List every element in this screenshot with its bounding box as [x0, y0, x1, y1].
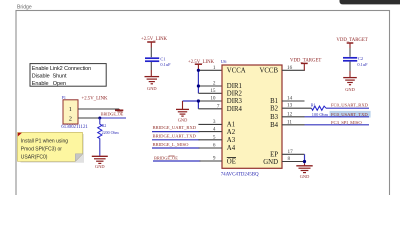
net BRIDGE_OE at OE pin	[153, 156, 222, 161]
pin numbers right	[287, 65, 293, 162]
junction node at R2 top	[98, 117, 101, 120]
svg-text:BRIDGE_OE: BRIDGE_OE	[154, 156, 178, 161]
wire pin1 VCCA	[198, 69, 222, 71]
Enable Link2 text frame	[30, 64, 106, 88]
wire DIR3-DIR4 vertical	[197, 101, 199, 109]
highlight selection on FC0_USART_TXD	[330, 111, 371, 118]
junction node DIR1	[197, 84, 200, 87]
svg-text:C2: C2	[358, 56, 363, 61]
wire +2.5V rail vertical	[197, 70, 199, 93]
wire B2 pin13	[282, 107, 312, 109]
svg-text:2: 2	[213, 81, 216, 87]
svg-text:VCCA: VCCA	[227, 67, 246, 74]
ground at U6 GND	[296, 164, 312, 179]
wire P1 pin1	[78, 108, 119, 110]
svg-text:Pmod SPI(FC3) or: Pmod SPI(FC3) or	[21, 146, 62, 152]
svg-text:A2: A2	[227, 129, 236, 136]
svg-text:1: 1	[213, 65, 216, 71]
svg-text:15: 15	[210, 88, 216, 94]
capacitor C1 0.1uF	[145, 48, 171, 71]
wire DIR2	[198, 92, 222, 94]
svg-text:FC0_USART_RXD: FC0_USART_RXD	[331, 102, 369, 107]
svg-text:USAR(FC0): USAR(FC0)	[21, 154, 48, 160]
svg-text:R1: R1	[311, 102, 316, 107]
IC U6 74AVC4T245	[221, 59, 282, 177]
wire FC3_SPI_MISO	[305, 124, 370, 126]
wire EP-GND vertical	[304, 154, 306, 163]
svg-text:BRIDGE_UART_RXD: BRIDGE_UART_RXD	[153, 125, 197, 130]
svg-text:0.1uF: 0.1uF	[357, 62, 368, 67]
svg-text:1: 1	[69, 106, 72, 113]
wire net stub BRIDGE_OE	[100, 117, 126, 119]
power +2.5V_LINK at U6 rail	[188, 60, 215, 71]
svg-text:GND: GND	[178, 117, 188, 122]
net BRIDGE_UART_RXD	[152, 125, 222, 131]
svg-text:Install P1 when using: Install P1 when using	[21, 138, 68, 144]
svg-text:+2.5V_LINK: +2.5V_LINK	[82, 97, 109, 102]
wire R1 to FC0_USART_RXD	[326, 107, 369, 109]
svg-text:B2: B2	[270, 105, 279, 112]
svg-text:DIR3: DIR3	[227, 98, 243, 105]
junction node DIR3	[197, 99, 200, 102]
svg-text:VCCB: VCCB	[259, 67, 278, 74]
svg-text:B3: B3	[270, 114, 279, 121]
svg-text:FC0_USART_TXD: FC0_USART_TXD	[331, 112, 368, 117]
power VDD_TARGET above C2	[336, 38, 367, 48]
svg-text:BRIDGE_L_MISO: BRIDGE_L_MISO	[153, 142, 190, 147]
wire DIR1	[198, 85, 222, 87]
svg-text:10: 10	[210, 96, 216, 102]
svg-text:DIR2: DIR2	[227, 91, 243, 98]
svg-text:EP: EP	[270, 152, 278, 159]
wire FC0_USART_TXD	[305, 116, 370, 118]
resistor R1 100 Ohm	[311, 102, 329, 117]
wire VCCB pin16	[282, 69, 305, 71]
wire B4 pin11	[282, 124, 305, 126]
resistor R2 2200 Ohm	[98, 118, 120, 156]
svg-text:Enable Link2 Connection: Enable Link2 Connection	[32, 66, 91, 72]
pin numbers left	[210, 65, 220, 162]
wire GND pin8	[282, 161, 305, 163]
svg-text:FC3_SPI_MISO: FC3_SPI_MISO	[331, 120, 362, 125]
svg-text:GND: GND	[263, 159, 278, 166]
ground at DIR3/DIR4	[176, 101, 189, 122]
svg-text:2: 2	[69, 115, 72, 122]
svg-text:A4: A4	[227, 145, 236, 152]
svg-text:DIR1: DIR1	[227, 83, 242, 90]
wire A1 stub pin3	[198, 123, 222, 125]
window chrome dark bar (top right)	[340, 0, 400, 4]
ground below R2	[92, 156, 108, 169]
wire DIR4	[198, 108, 222, 110]
wire GND to DIR3	[183, 100, 200, 102]
svg-text:BRIDGE_UART_TXD: BRIDGE_UART_TXD	[153, 134, 197, 139]
svg-text:A1: A1	[227, 122, 235, 129]
wire DIR3 pin stub	[198, 100, 222, 102]
svg-text:+2.5V_LINK: +2.5V_LINK	[141, 37, 168, 42]
svg-text:Enable Open: Enable Open	[32, 81, 66, 87]
sticky note "Install P1 when using..."	[18, 133, 85, 163]
svg-text:DIR4: DIR4	[227, 106, 243, 113]
wire EP pin17	[282, 153, 305, 155]
svg-text:74AVC4TD245BQ: 74AVC4TD245BQ	[221, 172, 259, 177]
svg-text:61300211121: 61300211121	[61, 125, 88, 130]
svg-text:GND: GND	[300, 174, 310, 179]
ground below C2	[343, 71, 357, 92]
svg-text:R2: R2	[102, 123, 107, 128]
svg-text:2200 Ohm: 2200 Ohm	[102, 130, 120, 135]
net label BRIDGE_OE (near P1)	[101, 111, 124, 116]
svg-text:A3: A3	[227, 137, 236, 144]
power +2.5V_LINK at P1	[82, 97, 124, 111]
svg-text:B1: B1	[270, 98, 278, 105]
junction node pin1	[197, 69, 200, 72]
wire B3 pin12	[282, 116, 305, 118]
power +2.5V_LINK above C1	[141, 37, 168, 48]
net BRIDGE_L_MISO	[152, 142, 222, 148]
ground below C1	[145, 70, 160, 91]
svg-text:GND: GND	[147, 86, 157, 91]
sheet border	[16, 11, 390, 211]
svg-text:Disable Shunt: Disable Shunt	[32, 74, 67, 80]
connector P1	[61, 95, 88, 130]
svg-text:GND: GND	[95, 164, 105, 169]
svg-text:0.1uF: 0.1uF	[160, 62, 171, 67]
svg-text:B4: B4	[270, 122, 279, 129]
svg-text:C1: C1	[160, 56, 165, 61]
svg-text:OE: OE	[227, 158, 236, 165]
junction node pin8	[303, 160, 306, 163]
capacitor C2 0.1uF	[343, 48, 368, 71]
power VDD_TARGET at VCCB	[290, 59, 321, 71]
net BRIDGE_UART_TXD	[152, 134, 222, 140]
svg-text:GND: GND	[345, 87, 355, 92]
svg-text:7: 7	[217, 104, 220, 110]
wire P1 pin2	[78, 117, 100, 119]
svg-text:Bridge: Bridge	[17, 5, 32, 11]
wire B1 stub pin14	[282, 100, 305, 102]
svg-text:U6: U6	[221, 59, 227, 64]
